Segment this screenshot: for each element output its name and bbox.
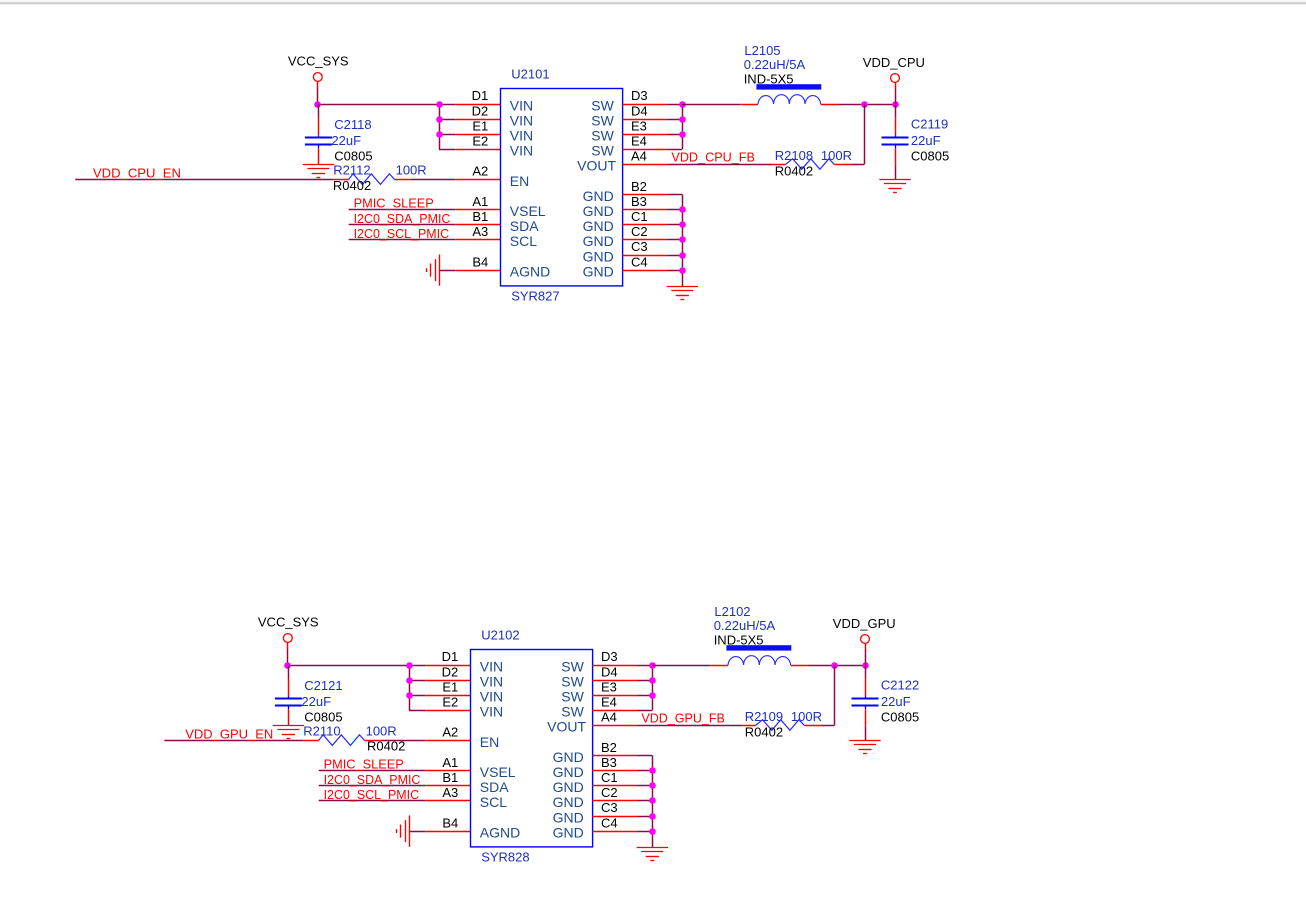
inductor L2102 0.22uH/5A xyxy=(714,604,792,665)
svg-text:GND: GND xyxy=(583,248,614,264)
svg-text:PMIC_SLEEP: PMIC_SLEEP xyxy=(324,757,404,772)
node junctions on SW bus xyxy=(649,662,656,699)
node junctions on VIN bus xyxy=(436,101,443,138)
svg-text:VIN: VIN xyxy=(480,689,503,705)
wire VIN bus vertical xyxy=(409,665,470,711)
svg-text:E3: E3 xyxy=(601,679,617,694)
svg-text:I2C0_SCL_PMIC: I2C0_SCL_PMIC xyxy=(354,226,450,241)
svg-text:R2109: R2109 xyxy=(745,709,783,724)
svg-text:100R: 100R xyxy=(366,724,397,739)
svg-text:E2: E2 xyxy=(472,134,488,149)
svg-text:SW: SW xyxy=(591,97,614,113)
svg-text:VSEL: VSEL xyxy=(480,764,516,780)
svg-text:B4: B4 xyxy=(442,815,458,830)
power symbol VDD_CPU (output rail) xyxy=(863,55,925,104)
svg-text:I2C0_SCL_PMIC: I2C0_SCL_PMIC xyxy=(324,787,420,802)
svg-text:22uF: 22uF xyxy=(301,694,331,709)
svg-text:C0805: C0805 xyxy=(881,709,919,724)
capacitor C2122 22uF xyxy=(852,665,920,740)
node junction VCC_SYS / C2118 xyxy=(314,101,321,108)
wire VCC_SYS vertical to main rail xyxy=(317,89,319,105)
svg-text:SW: SW xyxy=(561,658,584,674)
pin names inside IC (left) xyxy=(480,658,520,840)
svg-text:VDD_CPU_FB: VDD_CPU_FB xyxy=(671,150,755,165)
svg-text:E4: E4 xyxy=(601,695,617,710)
op-amp/regulator IC U2102 SYR828 xyxy=(471,627,593,864)
svg-text:L2102: L2102 xyxy=(714,604,750,619)
wire net VDD_GPU_EN xyxy=(164,727,470,742)
wire AGND pin B4 xyxy=(440,270,501,272)
svg-text:GND: GND xyxy=(553,779,584,795)
svg-text:VIN: VIN xyxy=(510,112,533,128)
svg-text:B4: B4 xyxy=(472,254,488,269)
svg-text:GND: GND xyxy=(553,764,584,780)
node junction output / feedback xyxy=(831,662,869,669)
svg-text:SW: SW xyxy=(561,673,584,689)
svg-text:VIN: VIN xyxy=(480,673,503,689)
node junctions on VIN bus xyxy=(406,662,413,699)
svg-text:C2121: C2121 xyxy=(304,678,342,693)
svg-text:B3: B3 xyxy=(601,755,617,770)
pin names inside IC (left) xyxy=(510,97,550,279)
ground AGND (left-pointing) xyxy=(427,254,440,285)
wire GND pins to bus xyxy=(593,756,653,848)
svg-text:C4: C4 xyxy=(631,254,648,269)
inductor L2105 0.22uH/5A xyxy=(744,43,822,104)
node junction VCC_SYS / C2121 xyxy=(284,662,291,669)
svg-text:VIN: VIN xyxy=(480,658,503,674)
svg-text:SYR828: SYR828 xyxy=(481,850,529,865)
wire VIN bus vertical xyxy=(439,104,500,150)
svg-text:VSEL: VSEL xyxy=(510,203,546,219)
svg-text:A4: A4 xyxy=(631,149,647,164)
resistor R2112 100R xyxy=(333,163,427,193)
svg-text:B3: B3 xyxy=(631,194,647,209)
svg-text:SDA: SDA xyxy=(480,779,509,795)
wire net PMIC_SLEEP xyxy=(319,757,471,772)
wire SW pins to bus xyxy=(593,665,653,711)
svg-text:22uF: 22uF xyxy=(911,133,941,148)
ground under C2119 xyxy=(879,180,910,193)
svg-text:VDD_GPU_EN: VDD_GPU_EN xyxy=(185,727,273,742)
pin number labels (left side) xyxy=(442,649,459,830)
svg-text:SYR827: SYR827 xyxy=(511,289,559,304)
op-amp/regulator IC U2101 SYR827 xyxy=(501,66,623,303)
svg-text:0.22uH/5A: 0.22uH/5A xyxy=(744,57,806,72)
svg-text:IND-5X5: IND-5X5 xyxy=(714,632,764,647)
svg-text:A3: A3 xyxy=(442,785,458,800)
svg-text:E4: E4 xyxy=(631,134,647,149)
wire SW node to inductor xyxy=(682,104,758,106)
svg-text:B2: B2 xyxy=(601,740,617,755)
svg-text:L2105: L2105 xyxy=(744,43,780,58)
svg-text:I2C0_SDA_PMIC: I2C0_SDA_PMIC xyxy=(324,772,421,787)
svg-text:U2101: U2101 xyxy=(511,66,549,81)
wire inductor to VDD_GPU rail xyxy=(791,665,865,667)
svg-text:C1: C1 xyxy=(601,770,618,785)
ground under GND pins xyxy=(637,848,668,861)
svg-text:GND: GND xyxy=(583,188,614,204)
svg-text:SCL: SCL xyxy=(510,233,537,249)
svg-text:VDD_GPU: VDD_GPU xyxy=(833,616,896,631)
svg-text:100R: 100R xyxy=(396,163,427,178)
svg-text:SW: SW xyxy=(561,689,584,705)
svg-text:R0402: R0402 xyxy=(333,178,371,193)
svg-text:VDD_CPU_EN: VDD_CPU_EN xyxy=(93,166,181,181)
svg-text:C2: C2 xyxy=(601,785,618,800)
wire SW node to inductor xyxy=(652,665,728,667)
svg-text:C2119: C2119 xyxy=(911,117,948,132)
pin number labels (right side) xyxy=(631,88,648,269)
svg-text:22uF: 22uF xyxy=(331,133,361,148)
svg-text:PMIC_SLEEP: PMIC_SLEEP xyxy=(354,196,434,211)
svg-text:E2: E2 xyxy=(442,695,458,710)
svg-text:AGND: AGND xyxy=(510,263,550,279)
svg-text:A2: A2 xyxy=(472,164,488,179)
svg-text:100R: 100R xyxy=(821,148,852,163)
svg-text:VCC_SYS: VCC_SYS xyxy=(288,54,349,69)
svg-text:EN: EN xyxy=(510,173,529,189)
svg-text:C2118: C2118 xyxy=(334,117,371,132)
svg-text:SCL: SCL xyxy=(480,794,507,810)
svg-text:D3: D3 xyxy=(631,88,648,103)
wire net PMIC_SLEEP xyxy=(349,196,501,211)
wire inductor to VDD_CPU rail xyxy=(821,104,895,106)
svg-text:I2C0_SDA_PMIC: I2C0_SDA_PMIC xyxy=(354,211,451,226)
wire VCC_SYS vertical to main rail xyxy=(287,650,289,666)
svg-text:D1: D1 xyxy=(472,88,489,103)
wire net VDD_CPU_EN xyxy=(75,166,500,181)
power symbol VCC_SYS (input rail) xyxy=(288,54,349,89)
svg-text:A2: A2 xyxy=(442,725,458,740)
svg-text:C0805: C0805 xyxy=(911,148,949,163)
svg-text:GND: GND xyxy=(583,263,614,279)
svg-text:D4: D4 xyxy=(631,103,648,118)
svg-text:A3: A3 xyxy=(472,224,488,239)
node junction output / feedback xyxy=(861,101,899,108)
svg-text:C4: C4 xyxy=(601,815,618,830)
svg-text:C2122: C2122 xyxy=(881,678,919,693)
svg-text:VOUT: VOUT xyxy=(577,158,616,174)
svg-text:0.22uH/5A: 0.22uH/5A xyxy=(714,618,776,633)
ground under C2122 xyxy=(849,741,880,754)
svg-text:E1: E1 xyxy=(472,118,488,133)
svg-text:GND: GND xyxy=(553,809,584,825)
wire net I2C0_SDA_PMIC xyxy=(319,772,471,787)
svg-text:GND: GND xyxy=(583,233,614,249)
svg-text:GND: GND xyxy=(583,218,614,234)
node junctions on GND bus xyxy=(679,206,686,274)
svg-text:GND: GND xyxy=(583,203,614,219)
wire net VDD_CPU_FB feedback xyxy=(623,104,865,165)
svg-text:AGND: AGND xyxy=(480,824,520,840)
svg-text:VIN: VIN xyxy=(510,97,533,113)
svg-text:SW: SW xyxy=(561,704,584,720)
top window chrome strip xyxy=(0,0,1306,5)
svg-text:D4: D4 xyxy=(601,664,618,679)
ground under C2121 xyxy=(273,726,304,739)
svg-text:R2112: R2112 xyxy=(333,163,370,178)
svg-text:C0805: C0805 xyxy=(334,148,372,163)
svg-text:GND: GND xyxy=(553,749,584,765)
svg-text:EN: EN xyxy=(480,734,499,750)
svg-text:E1: E1 xyxy=(442,679,458,694)
svg-text:GND: GND xyxy=(553,824,584,840)
svg-text:SDA: SDA xyxy=(510,218,539,234)
svg-text:VOUT: VOUT xyxy=(547,719,586,735)
capacitor C2121 22uF xyxy=(275,665,343,725)
wire net VDD_GPU_FB feedback xyxy=(593,665,835,726)
svg-text:VCC_SYS: VCC_SYS xyxy=(258,615,319,630)
ground under C2118 xyxy=(303,165,334,178)
svg-text:B1: B1 xyxy=(442,770,458,785)
wire GND pins to bus xyxy=(623,195,683,287)
capacitor C2118 22uF xyxy=(305,104,373,164)
svg-text:A1: A1 xyxy=(442,755,458,770)
pin names inside IC (right) xyxy=(577,97,616,279)
svg-text:R0402: R0402 xyxy=(775,164,813,179)
svg-text:R2110: R2110 xyxy=(303,724,340,739)
svg-text:C3: C3 xyxy=(631,239,648,254)
resistor R2109 100R xyxy=(745,709,822,739)
svg-text:VIN: VIN xyxy=(480,704,503,720)
svg-text:VIN: VIN xyxy=(510,143,533,159)
node junctions on GND bus xyxy=(649,767,656,835)
svg-text:SW: SW xyxy=(591,112,614,128)
wire main VCC_SYS rail to VIN pins xyxy=(318,104,501,106)
svg-text:C0805: C0805 xyxy=(304,709,342,724)
wire AGND pin B4 xyxy=(410,831,471,833)
node junctions on SW bus xyxy=(679,101,686,138)
svg-text:D2: D2 xyxy=(442,664,459,679)
svg-text:D2: D2 xyxy=(472,103,489,118)
svg-text:VIN: VIN xyxy=(510,128,533,144)
svg-text:22uF: 22uF xyxy=(881,694,911,709)
svg-text:A4: A4 xyxy=(601,710,617,725)
svg-text:100R: 100R xyxy=(791,709,822,724)
svg-text:U2102: U2102 xyxy=(481,627,519,642)
svg-text:R0402: R0402 xyxy=(745,725,783,740)
resistor R2108 100R xyxy=(775,148,852,178)
wire SW pins to bus xyxy=(623,104,683,150)
svg-text:VDD_GPU_FB: VDD_GPU_FB xyxy=(641,711,725,726)
resistor R2110 100R xyxy=(303,724,405,754)
svg-text:A1: A1 xyxy=(472,194,488,209)
power symbol VCC_SYS (input rail) xyxy=(258,615,319,650)
pin number labels (left side) xyxy=(472,88,489,269)
svg-text:B2: B2 xyxy=(631,179,647,194)
svg-text:D3: D3 xyxy=(601,649,618,664)
svg-text:R2108: R2108 xyxy=(775,148,813,163)
svg-text:E3: E3 xyxy=(631,118,647,133)
ground under GND pins xyxy=(667,287,698,300)
svg-text:C1: C1 xyxy=(631,209,648,224)
wire main VCC_SYS rail to VIN pins xyxy=(288,665,471,667)
wire net I2C0_SDA_PMIC xyxy=(349,211,501,226)
ground AGND (left-pointing) xyxy=(397,815,410,846)
capacitor C2119 22uF xyxy=(882,104,950,179)
wire net I2C0_SCL_PMIC xyxy=(349,226,501,241)
svg-text:SW: SW xyxy=(591,128,614,144)
svg-text:C2: C2 xyxy=(631,224,648,239)
wire net I2C0_SCL_PMIC xyxy=(319,787,471,802)
svg-text:D1: D1 xyxy=(442,649,459,664)
svg-text:VDD_CPU: VDD_CPU xyxy=(863,55,925,70)
pin number labels (right side) xyxy=(601,649,618,830)
svg-text:B1: B1 xyxy=(472,209,488,224)
power symbol VDD_GPU (output rail) xyxy=(833,616,896,665)
pin names inside IC (right) xyxy=(547,658,586,840)
svg-text:C3: C3 xyxy=(601,800,618,815)
svg-text:IND-5X5: IND-5X5 xyxy=(744,71,794,86)
svg-text:SW: SW xyxy=(591,143,614,159)
svg-text:GND: GND xyxy=(553,794,584,810)
svg-text:R0402: R0402 xyxy=(367,738,405,753)
